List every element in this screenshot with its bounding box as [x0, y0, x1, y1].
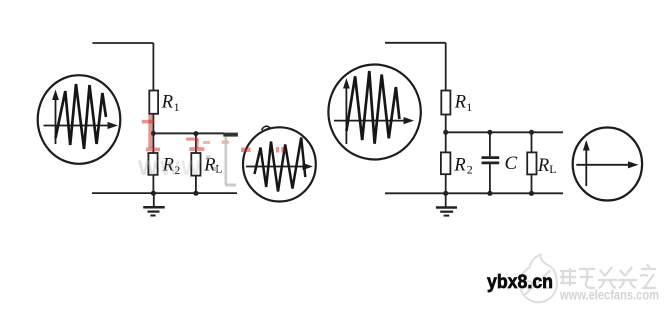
- input triangle waveform (left): [56, 84, 107, 149]
- svg-text:R: R: [537, 156, 549, 176]
- wire: top feed (left): [92, 42, 153, 44]
- svg-text:C: C: [505, 153, 518, 174]
- wire: bottom rail (right): [385, 192, 563, 194]
- wire: vertical to R1 (right): [445, 43, 447, 91]
- resistor R2 (right): [441, 152, 451, 174]
- junction dot bottom R2/ground (right): [443, 191, 448, 196]
- wire: capacitor top stub (right): [489, 132, 491, 156]
- svg-text:R: R: [453, 156, 465, 176]
- input triangle waveform (right): [346, 71, 399, 144]
- svg-text:R: R: [161, 93, 173, 113]
- capacitor C plates: [482, 158, 500, 163]
- wire: R1 to node B (right): [445, 115, 447, 133]
- output scope circle (right): [573, 128, 642, 201]
- junction dot bottom RL (right): [529, 191, 534, 196]
- red watermark ticks inside left output circle: [241, 147, 285, 153]
- pen curl at top of output circle (left): [262, 126, 271, 130]
- wire: capacitor bottom stub (right): [489, 164, 491, 193]
- junction dot at RL top (right): [529, 130, 534, 135]
- junction dot bottom RL (left): [193, 191, 198, 196]
- node A junction dot (left divider output): [151, 131, 156, 136]
- svg-text:1: 1: [466, 100, 472, 114]
- wire: vertical to R1 (left): [152, 43, 154, 91]
- wire: R2 bottom (left): [152, 175, 154, 193]
- wire: RL bottom (left): [195, 176, 197, 194]
- resistor RL (left): [191, 153, 200, 176]
- input source scope circle (right): [328, 65, 420, 160]
- ground symbol (right): [436, 193, 457, 215]
- svg-text:ybx8.cn: ybx8.cn: [487, 272, 553, 293]
- wire: RL top stub (right): [531, 132, 533, 152]
- gray watermark dash fragments near RL label: [206, 155, 218, 170]
- output axis arrow (left): [246, 163, 313, 170]
- junction dot bottom R2 (left): [151, 191, 156, 196]
- wire: RL bottom stub (right): [531, 174, 533, 193]
- red watermark band above RL (left): [186, 138, 204, 152]
- wire: node B rail to output (right): [446, 131, 563, 133]
- wire: bottom rail (left): [92, 192, 237, 194]
- output scope circle (left): [243, 127, 316, 201]
- wire: output stub toward scope with bold dash end (left): [223, 133, 238, 137]
- wire: node A down to R2 (left): [152, 133, 154, 153]
- output triangle waveform (left): [255, 138, 306, 192]
- wire: top feed (right): [385, 42, 446, 44]
- red watermark stroke: vertical bar over R2 wire (left): [142, 114, 160, 151]
- node B junction dot (right divider output): [443, 130, 448, 135]
- wire: R2 bottom (right): [445, 174, 447, 193]
- ground symbol (left): [143, 193, 165, 215]
- svg-text:www.elecfans.com: www.elecfans.com: [559, 288, 659, 303]
- output DC axis arrows (right): [576, 140, 638, 186]
- svg-text:1: 1: [174, 100, 180, 114]
- svg-text:W: W: [138, 157, 158, 180]
- input waveform axes (left): [44, 90, 119, 145]
- svg-text:2: 2: [467, 163, 473, 177]
- svg-text:R: R: [454, 93, 466, 113]
- resistor R1 (left): [149, 91, 158, 114]
- junction dot bottom C (right): [487, 191, 492, 196]
- gray watermark faint stem fragment: [225, 137, 237, 187]
- elecfans brand glyphs (light gray): [560, 264, 656, 288]
- svg-text:W: W: [181, 157, 201, 180]
- svg-text:W: W: [160, 157, 180, 180]
- junction dot at C top (right): [487, 130, 492, 135]
- ybx8.cn logo drop blob (bottom-right): [520, 255, 557, 303]
- wire: R1 to node A (left): [152, 114, 154, 134]
- wire: node B to R2 (right): [445, 132, 447, 152]
- wire: node A to RL branch (left): [153, 132, 224, 134]
- junction dot at RL top (left): [193, 131, 198, 136]
- input source scope circle (left): [38, 75, 121, 164]
- resistor RL (right): [527, 152, 536, 174]
- red watermark fragment near output wire (left): [203, 141, 229, 145]
- resistor R2 (left): [148, 153, 157, 175]
- wire: RL top stub (left): [195, 133, 197, 153]
- svg-text:L: L: [549, 162, 556, 176]
- resistor R1 (right): [441, 91, 450, 115]
- input waveform axes (right): [334, 78, 414, 144]
